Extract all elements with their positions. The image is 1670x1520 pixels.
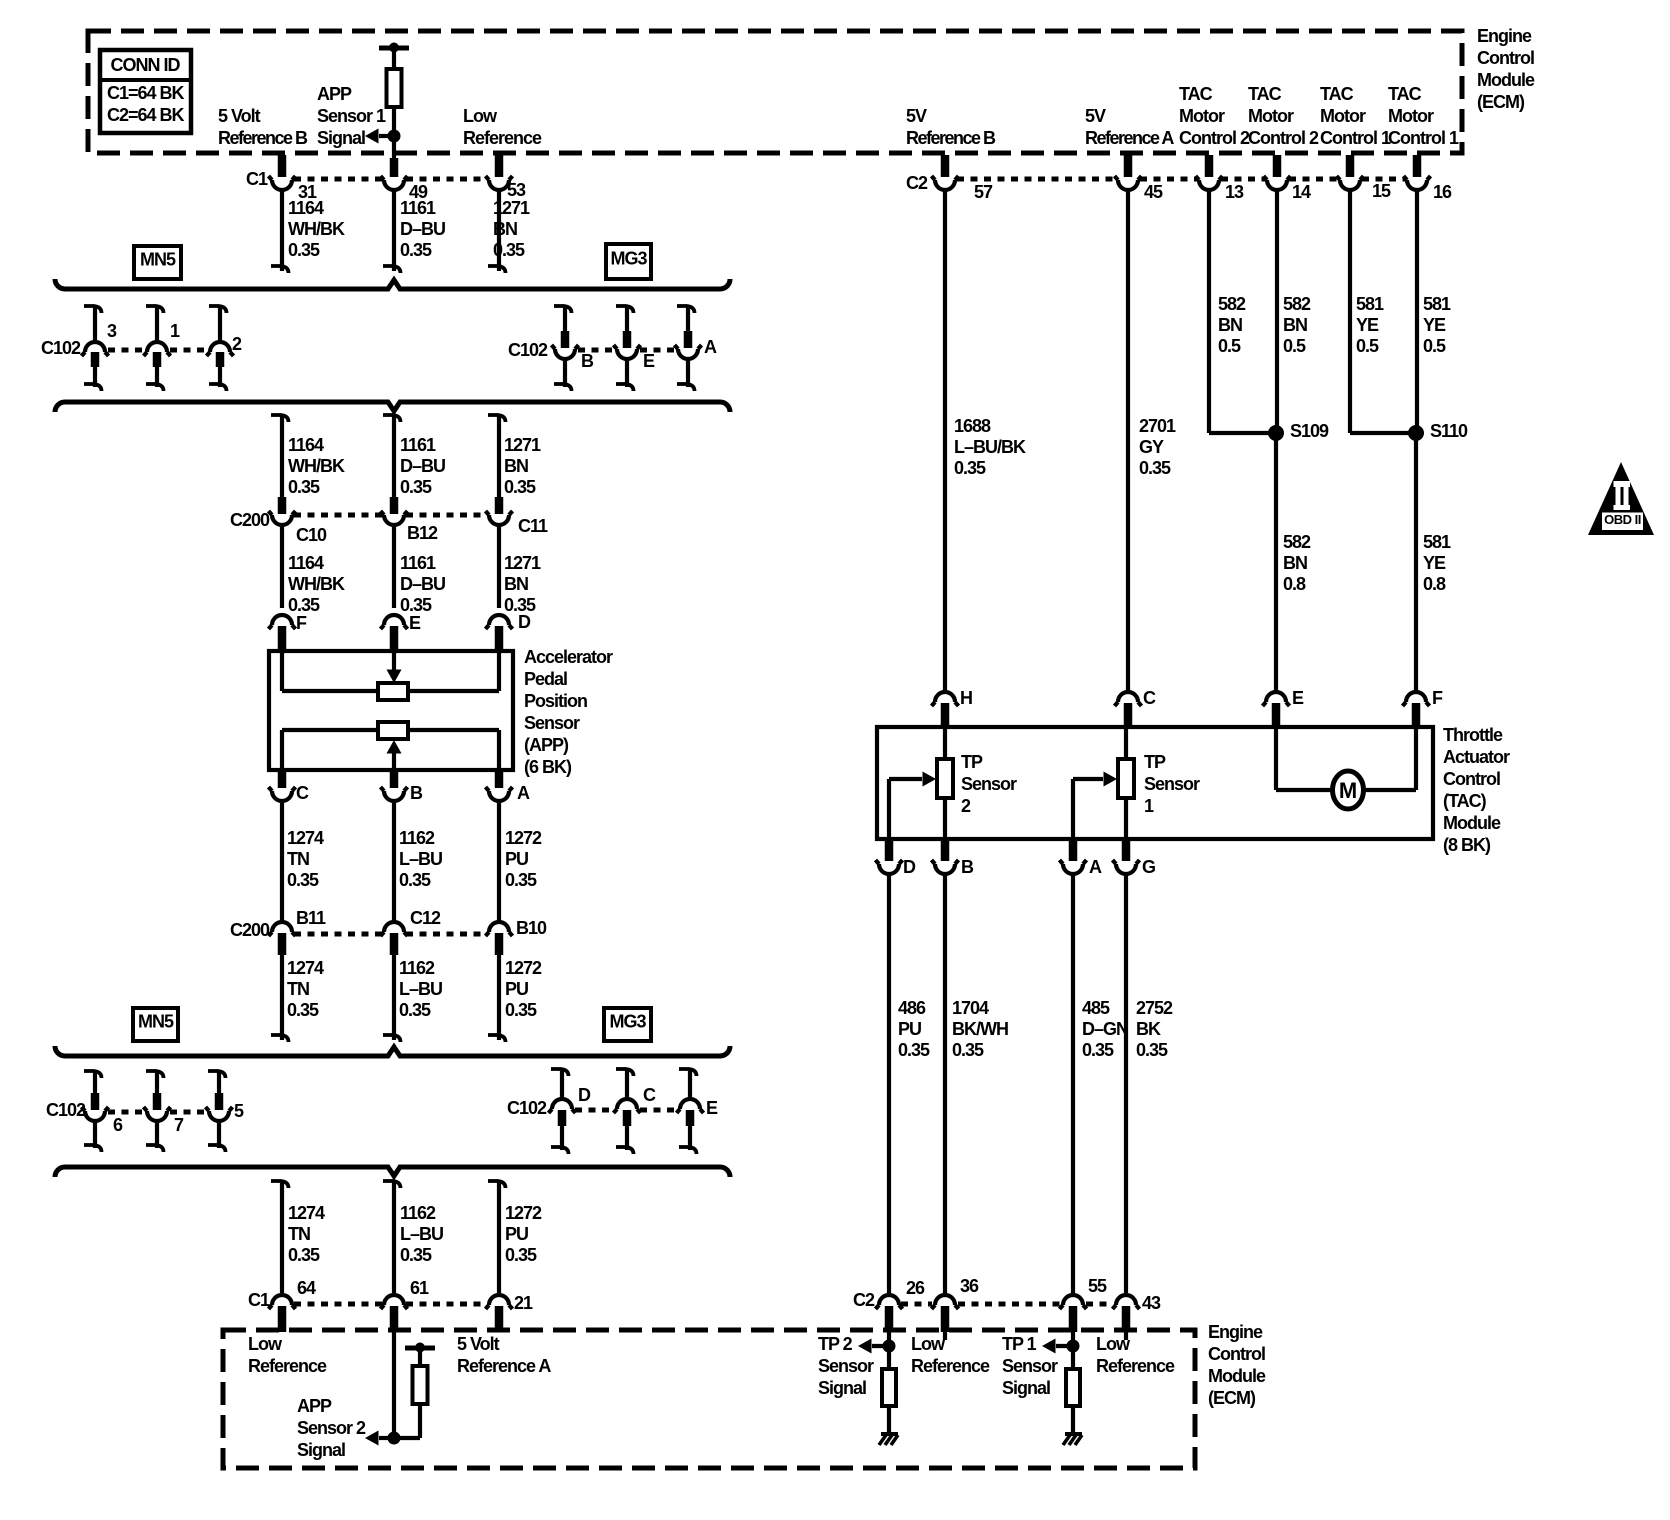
label 1274 TN 0.35 (2) — [287, 958, 324, 1020]
svg-text:0.35: 0.35 — [505, 1000, 537, 1020]
pin 57 terminal — [932, 155, 994, 202]
dashed line C102 top-left — [108, 348, 208, 353]
label 2701 GY 0.35 — [1139, 416, 1176, 478]
svg-text:1164: 1164 — [288, 553, 324, 573]
svg-text:(ECM): (ECM) — [1208, 1388, 1256, 1408]
label TAC Motor Control 1 (pin 16) — [1388, 84, 1459, 148]
inline connector C102 pin E (top-right) — [614, 305, 656, 391]
svg-text:36: 36 — [960, 1276, 979, 1296]
pin E (TAC) — [1263, 688, 1305, 727]
svg-text:Throttle: Throttle — [1443, 725, 1503, 745]
wire 1162 (to harness) — [383, 953, 401, 1042]
connector C102 label (bottom right) — [507, 1098, 547, 1118]
label 1271 BN 0.35 — [493, 198, 530, 260]
label 5 Volt Reference B — [218, 106, 308, 148]
svg-text:TP: TP — [961, 752, 983, 772]
svg-text:1272: 1272 — [505, 958, 542, 978]
wire 1164 (harness to C200) — [271, 414, 289, 499]
wire 1164 (C200 to APP F) — [280, 527, 284, 608]
svg-text:7: 7 — [174, 1115, 184, 1135]
connector C102 label (top left) — [41, 338, 81, 358]
svg-text:A: A — [704, 337, 717, 357]
svg-text:Sensor: Sensor — [818, 1356, 874, 1376]
svg-text:21: 21 — [514, 1293, 533, 1313]
inline connector C102 pin D (bottom-right) — [549, 1068, 592, 1154]
svg-text:3: 3 — [107, 321, 117, 341]
svg-text:BK/WH: BK/WH — [952, 1019, 1008, 1039]
inline connector C102 pin 7 (bottom-left) — [144, 1070, 185, 1152]
svg-text:L–BU: L–BU — [399, 979, 442, 999]
svg-text:1274: 1274 — [287, 958, 324, 978]
svg-text:(8 BK): (8 BK) — [1443, 835, 1491, 855]
svg-text:Signal: Signal — [297, 1440, 345, 1460]
svg-text:Module: Module — [1477, 70, 1535, 90]
APP pot 1 wiper arrow — [387, 651, 402, 683]
svg-text:1162: 1162 — [399, 828, 435, 848]
pin A (APP) — [486, 770, 531, 803]
wire junction to pin 49 — [392, 136, 396, 158]
svg-text:6: 6 — [113, 1115, 123, 1135]
label Low Reference (36) — [911, 1334, 990, 1376]
label 5V Reference B — [906, 106, 996, 148]
svg-text:Signal: Signal — [317, 128, 365, 148]
wire TP1 resistor to ground — [1071, 1406, 1075, 1434]
svg-text:TN: TN — [287, 979, 309, 999]
svg-text:S109: S109 — [1290, 421, 1329, 441]
svg-text:BN: BN — [504, 456, 528, 476]
pin 43 terminal — [1113, 1293, 1162, 1332]
svg-text:Control 1: Control 1 — [1388, 128, 1459, 148]
svg-text:1274: 1274 — [288, 1203, 325, 1223]
pin B (APP) — [381, 770, 424, 803]
terminal B11 — [269, 908, 327, 955]
svg-text:Reference B: Reference B — [218, 128, 308, 148]
svg-text:C: C — [1143, 688, 1156, 708]
svg-text:0.5: 0.5 — [1218, 336, 1241, 356]
svg-text:Sensor: Sensor — [1002, 1356, 1058, 1376]
svg-text:TP 2: TP 2 — [818, 1334, 853, 1354]
svg-text:TN: TN — [288, 1224, 310, 1244]
pin F (APP) — [269, 613, 308, 650]
svg-text:(TAC): (TAC) — [1443, 791, 1487, 811]
dashed line C102 top-right — [578, 348, 675, 353]
svg-text:C200: C200 — [230, 510, 270, 530]
inline connector C102 pin 1 (top-left) — [144, 305, 181, 391]
label 1161 D-BU 0.35 — [400, 198, 445, 260]
inline connector C102 pin B (top-right) — [552, 305, 595, 391]
svg-text:YE: YE — [1356, 315, 1379, 335]
ECM module box (bottom) — [223, 1330, 1195, 1468]
label TAC Motor Control 2 (pin 13) — [1179, 84, 1250, 148]
svg-text:0.35: 0.35 — [287, 1000, 319, 1020]
label 1162 L-BU 0.35 (2) — [399, 958, 442, 1020]
APP sensor box — [269, 651, 513, 770]
svg-text:Signal: Signal — [818, 1378, 866, 1398]
ECM label (top right) — [1477, 26, 1535, 112]
dashed connector line C1 bottom — [294, 1302, 487, 1307]
dashed line C102 bottom-left — [108, 1110, 208, 1115]
pin 53 terminal — [486, 155, 527, 200]
dashed connector line C1 row — [294, 177, 487, 182]
svg-text:TN: TN — [287, 849, 309, 869]
pin D (TAC) — [876, 839, 917, 877]
label 1274 TN 0.35 (3) — [288, 1203, 325, 1265]
splice S110 — [1408, 421, 1468, 441]
label 1271 BN 0.35 (2) — [504, 435, 541, 497]
svg-text:PU: PU — [505, 1224, 528, 1244]
svg-text:53: 53 — [507, 180, 526, 200]
svg-text:Reference: Reference — [248, 1356, 327, 1376]
svg-text:Control 2: Control 2 — [1248, 128, 1319, 148]
svg-text:1271: 1271 — [493, 198, 530, 218]
svg-text:C102: C102 — [507, 1098, 547, 1118]
harness tag MN5 (top) — [134, 246, 181, 279]
svg-text:BK: BK — [1136, 1019, 1161, 1039]
svg-text:Reference: Reference — [911, 1356, 990, 1376]
svg-text:Pedal: Pedal — [524, 669, 567, 689]
resistor (APP sensor 1 pullup) — [387, 69, 402, 107]
svg-text:0.5: 0.5 — [1356, 336, 1379, 356]
svg-text:14: 14 — [1292, 182, 1311, 202]
svg-text:0.35: 0.35 — [400, 595, 432, 615]
svg-text:26: 26 — [906, 1278, 925, 1298]
svg-text:Reference: Reference — [1096, 1356, 1175, 1376]
wire 1274 (harness to 64) — [271, 1180, 289, 1293]
svg-text:MN5: MN5 — [140, 250, 176, 270]
terminal B12 — [381, 497, 439, 543]
svg-text:B: B — [410, 783, 423, 803]
svg-text:D–BU: D–BU — [400, 219, 445, 239]
svg-text:2: 2 — [232, 334, 242, 354]
label TP 1 Sensor Signal — [1002, 1334, 1058, 1398]
pin 55 terminal — [1060, 1276, 1108, 1332]
label 581 YE 0.8 — [1423, 532, 1451, 594]
svg-text:(6 BK): (6 BK) — [524, 757, 572, 777]
svg-text:581: 581 — [1423, 294, 1451, 314]
wire 2752 (G to 43) — [1124, 874, 1128, 1293]
wire 1161 (49 to harness) — [383, 190, 401, 273]
svg-text:Signal: Signal — [1002, 1378, 1050, 1398]
label 2752 BK 0.35 — [1136, 998, 1173, 1060]
wire 581 (pin 16) — [1415, 190, 1419, 433]
label 1272 PU 0.35 (3) — [505, 1203, 542, 1265]
terminal C11 — [486, 497, 549, 536]
junction node TP2 — [883, 1340, 896, 1353]
svg-text:B10: B10 — [516, 918, 547, 938]
svg-text:Sensor 2: Sensor 2 — [297, 1418, 366, 1438]
svg-text:1271: 1271 — [504, 553, 541, 573]
ground (TP2) — [879, 1434, 898, 1445]
svg-text:E: E — [643, 351, 655, 371]
dashed connector line C200 row1 — [294, 513, 487, 518]
connector row label C2 — [906, 173, 928, 193]
label 1164 WH/BK 0.35 — [288, 198, 345, 260]
TP sensor 1 wiper — [1073, 772, 1117, 840]
svg-text:C: C — [643, 1085, 656, 1105]
svg-text:TP: TP — [1144, 752, 1166, 772]
pin C (APP) — [269, 770, 310, 803]
pin 61 terminal — [381, 1278, 430, 1332]
svg-text:0.35: 0.35 — [954, 458, 986, 478]
wire 581 (pin 15) — [1350, 190, 1416, 433]
svg-text:TAC: TAC — [1179, 84, 1213, 104]
svg-text:F: F — [1432, 688, 1443, 708]
arrow TP 2 Sensor Signal — [858, 1339, 889, 1354]
svg-text:581: 581 — [1356, 294, 1384, 314]
svg-text:Sensor: Sensor — [961, 774, 1017, 794]
svg-text:D–GN: D–GN — [1082, 1019, 1128, 1039]
label 5 Volt Reference A — [457, 1334, 551, 1376]
svg-text:0.35: 0.35 — [400, 477, 432, 497]
svg-text:TP 1: TP 1 — [1002, 1334, 1037, 1354]
svg-text:E: E — [409, 613, 421, 633]
svg-text:Motor: Motor — [1179, 106, 1225, 126]
label 582 BN 0.5 (14) — [1283, 294, 1311, 356]
pin 49 terminal — [381, 158, 429, 202]
svg-text:B: B — [961, 857, 974, 877]
svg-text:0.8: 0.8 — [1283, 574, 1306, 594]
svg-text:B12: B12 — [407, 523, 438, 543]
label 1164 WH/BK 0.35 (3) — [288, 553, 345, 615]
label 485 D-GN 0.35 — [1082, 998, 1128, 1060]
wire 1162 (harness to 61) — [383, 1180, 401, 1293]
svg-text:B11: B11 — [296, 908, 326, 928]
TP sensor 2 element — [937, 727, 953, 839]
svg-text:A: A — [517, 783, 530, 803]
harness brace bottom (lower) — [55, 1167, 730, 1177]
svg-text:1271: 1271 — [504, 435, 541, 455]
svg-text:C2: C2 — [906, 173, 928, 193]
svg-text:5: 5 — [234, 1101, 244, 1121]
svg-text:MG3: MG3 — [610, 249, 647, 269]
svg-text:G: G — [1142, 857, 1155, 877]
svg-text:GY: GY — [1139, 437, 1164, 457]
svg-text:2: 2 — [961, 796, 971, 816]
terminal B10 — [486, 918, 548, 955]
svg-text:F: F — [296, 613, 307, 633]
splice S109 — [1268, 421, 1329, 441]
svg-text:1: 1 — [1144, 796, 1154, 816]
dashed connector line C2 row — [957, 177, 1405, 182]
svg-text:L–BU: L–BU — [399, 849, 442, 869]
svg-text:Reference A: Reference A — [1085, 128, 1174, 148]
svg-text:Control: Control — [1443, 769, 1500, 789]
svg-text:Reference: Reference — [463, 128, 542, 148]
svg-text:M: M — [1339, 778, 1357, 803]
inline connector C102 pin 6 (bottom-left) — [82, 1070, 124, 1152]
pin E (APP) — [381, 613, 422, 650]
label 1272 PU 0.35 — [505, 828, 542, 890]
svg-text:YE: YE — [1423, 553, 1446, 573]
wire TP2 signal inside ECM — [887, 1332, 891, 1346]
label 1688 L-BU/BK 0.35 — [954, 416, 1026, 478]
TP1 pulldown resistor — [1066, 1346, 1080, 1406]
svg-text:C10: C10 — [296, 525, 327, 545]
svg-text:1164: 1164 — [288, 435, 324, 455]
TAC module box — [877, 727, 1433, 839]
svg-text:5V: 5V — [906, 106, 927, 126]
svg-text:Reference B: Reference B — [906, 128, 996, 148]
dashed line C102 bottom-right — [575, 1108, 677, 1113]
svg-text:1161: 1161 — [400, 553, 436, 573]
svg-text:WH/BK: WH/BK — [288, 456, 345, 476]
svg-text:0.35: 0.35 — [399, 1000, 431, 1020]
svg-text:0.35: 0.35 — [505, 870, 537, 890]
svg-text:MN5: MN5 — [138, 1012, 174, 1032]
svg-text:B: B — [581, 351, 594, 371]
pin 21 terminal — [486, 1293, 534, 1332]
label TAC module — [1443, 725, 1510, 855]
svg-text:Engine: Engine — [1477, 26, 1532, 46]
wire 1704 (B to 36) — [943, 874, 947, 1293]
svg-text:45: 45 — [1144, 182, 1163, 202]
svg-text:L–BU: L–BU — [400, 1224, 443, 1244]
svg-text:Motor: Motor — [1320, 106, 1366, 126]
svg-text:55: 55 — [1088, 1276, 1107, 1296]
svg-text:D: D — [518, 612, 531, 632]
svg-text:5V: 5V — [1085, 106, 1106, 126]
inline connector C102 pin 3 (top-left) — [82, 305, 118, 391]
svg-text:5 Volt: 5 Volt — [218, 106, 261, 126]
svg-text:WH/BK: WH/BK — [288, 574, 345, 594]
label TP 2 Sensor Signal — [818, 1334, 874, 1398]
connector C102 label (top right) — [508, 340, 548, 360]
svg-text:582: 582 — [1283, 294, 1311, 314]
label 1162 L-BU 0.35 (3) — [400, 1203, 443, 1265]
ECM module box (top) — [88, 31, 1462, 153]
label APP Sensor 2 Signal — [297, 1396, 366, 1460]
svg-text:0.8: 0.8 — [1423, 574, 1446, 594]
wire 1271 (C200 to APP D) — [497, 527, 501, 608]
connector row label C2 (bottom) — [853, 1290, 875, 1310]
pin 16 terminal — [1404, 155, 1453, 202]
svg-text:0.35: 0.35 — [505, 1245, 537, 1265]
svg-text:D: D — [578, 1085, 591, 1105]
wire 486 (D to 26) — [887, 874, 891, 1293]
svg-text:1162: 1162 — [399, 958, 435, 978]
label TP Sensor 2 — [961, 752, 1017, 816]
svg-text:BN: BN — [493, 219, 517, 239]
svg-text:BN: BN — [1283, 553, 1307, 573]
svg-text:1688: 1688 — [954, 416, 991, 436]
svg-text:(ECM): (ECM) — [1477, 92, 1525, 112]
svg-text:Sensor 1: Sensor 1 — [317, 106, 386, 126]
svg-text:BN: BN — [1218, 315, 1242, 335]
svg-text:L–BU/BK: L–BU/BK — [954, 437, 1026, 457]
terminal C10 — [269, 497, 328, 545]
APP pot 2 track — [282, 722, 499, 770]
pin 64 terminal — [269, 1278, 317, 1332]
svg-text:TAC: TAC — [1320, 84, 1354, 104]
terminal C12 — [381, 908, 442, 955]
connector row label C1 (bottom) — [248, 1290, 270, 1310]
svg-text:1162: 1162 — [400, 1203, 436, 1223]
label 1271 BN 0.35 (3) — [504, 553, 541, 615]
wire 1272 (A to C200) — [497, 801, 501, 921]
svg-text:C11: C11 — [518, 516, 548, 536]
svg-text:486: 486 — [898, 998, 926, 1018]
arrow APP Sensor 1 Signal — [365, 129, 394, 144]
svg-text:Position: Position — [524, 691, 587, 711]
svg-text:0.35: 0.35 — [1136, 1040, 1168, 1060]
svg-text:2701: 2701 — [1139, 416, 1176, 436]
svg-text:1272: 1272 — [505, 828, 542, 848]
dashed connector line C200 row2 — [294, 932, 487, 937]
pin G (TAC) — [1113, 839, 1156, 877]
pin A (TAC) — [1060, 839, 1103, 877]
svg-text:Accelerator: Accelerator — [524, 647, 613, 667]
pin 36 terminal — [932, 1276, 980, 1332]
svg-text:0.35: 0.35 — [1139, 458, 1171, 478]
svg-text:15: 15 — [1372, 181, 1391, 201]
ECM label (bottom right) — [1208, 1322, 1266, 1408]
svg-text:13: 13 — [1225, 182, 1244, 202]
pin C (TAC) — [1115, 688, 1157, 727]
svg-text:PU: PU — [505, 979, 528, 999]
svg-text:64: 64 — [297, 1278, 316, 1298]
svg-text:Low: Low — [248, 1334, 283, 1354]
label 581 YE 0.5 (15) — [1356, 294, 1384, 356]
wire 1272 (to harness) — [488, 953, 506, 1042]
svg-text:MG3: MG3 — [609, 1012, 646, 1032]
svg-text:C2: C2 — [853, 1290, 875, 1310]
pin 26 terminal — [876, 1278, 926, 1332]
label 1274 TN 0.35 — [287, 828, 324, 890]
svg-text:TAC: TAC — [1248, 84, 1282, 104]
label 5V Reference A — [1085, 106, 1174, 148]
svg-text:0.35: 0.35 — [399, 870, 431, 890]
label Low Reference (pin 53) — [463, 106, 542, 148]
inline connector C102 pin C (bottom-right) — [614, 1068, 657, 1154]
svg-text:5 Volt: 5 Volt — [457, 1334, 500, 1354]
wire resistor to junction — [392, 107, 396, 136]
wire supply to resistor — [392, 48, 396, 69]
svg-text:1274: 1274 — [287, 828, 324, 848]
svg-text:0.35: 0.35 — [898, 1040, 930, 1060]
svg-text:0.35: 0.35 — [288, 240, 320, 260]
wire 2701 (45 to C) — [1126, 190, 1130, 691]
arrow TP 1 Sensor Signal — [1042, 1339, 1073, 1354]
junction node TP1 — [1067, 1340, 1080, 1353]
connector row label C200 (2) — [230, 920, 270, 940]
5V supply terminal — [379, 43, 409, 53]
TP sensor 2 wiper — [889, 772, 936, 840]
wire 61 inside ECM — [392, 1332, 396, 1438]
wire 1274 (to harness) — [271, 953, 289, 1042]
svg-text:Low: Low — [911, 1334, 946, 1354]
harness tag MN5 (bottom) — [133, 1008, 178, 1041]
inline connector C102 pin E (bottom-right) — [677, 1068, 719, 1154]
wire 582 (pin 13) — [1209, 190, 1276, 433]
svg-text:1161: 1161 — [400, 198, 436, 218]
arrow APP Sensor 2 Signal — [365, 1431, 394, 1446]
wire 43 stub inside ECM — [1124, 1332, 1128, 1340]
svg-text:16: 16 — [1433, 182, 1452, 202]
label 581 YE 0.5 (16) — [1423, 294, 1451, 356]
harness tag MG3 (bottom) — [604, 1008, 651, 1041]
svg-text:0.35: 0.35 — [400, 240, 432, 260]
svg-text:57: 57 — [974, 182, 993, 202]
wire 1271 (harness to C200) — [488, 414, 506, 499]
wire 1272 (harness to 21) — [488, 1180, 506, 1293]
APP pot 1 track — [282, 651, 499, 700]
5V supply terminal (bottom) — [405, 1343, 435, 1353]
svg-text:0.35: 0.35 — [504, 477, 536, 497]
wire 1161 (C200 to APP E) — [392, 527, 396, 608]
pin 31 terminal — [269, 155, 318, 202]
svg-text:1704: 1704 — [952, 998, 989, 1018]
label 1272 PU 0.35 (2) — [505, 958, 542, 1020]
